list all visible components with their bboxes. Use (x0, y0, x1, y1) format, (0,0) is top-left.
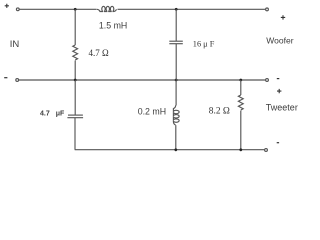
label - (woofer negative) (277, 78, 280, 80)
label - (input negative) (4, 77, 7, 79)
svg-text:Tweeter: Tweeter (266, 103, 298, 113)
svg-text:Woofer: Woofer (266, 36, 293, 46)
wire top rail right (118, 8, 266, 10)
wire capacitor C1 top lead (175, 9, 177, 41)
terminal input + (16, 8, 19, 11)
label - (tweeter negative) (277, 142, 279, 144)
wire resistor R1 top lead (74, 9, 76, 45)
wire bottom rail (75, 149, 265, 151)
terminal woofer -/tweeter + (266, 79, 269, 82)
label + (woofer positive) (281, 15, 285, 19)
svg-text:1.5 mH: 1.5 mH (99, 21, 127, 31)
capacitor C2 4.7 uF plate top (68, 114, 83, 116)
node junction top B (175, 8, 178, 11)
node junction bottom A (174, 148, 177, 151)
terminal woofer + (266, 8, 269, 11)
node junction top A (74, 8, 77, 11)
wire resistor R1 bottom lead (74, 61, 76, 81)
inductor L2 0.2 mH (173, 105, 179, 125)
terminal input - (16, 79, 19, 82)
svg-text:IN: IN (10, 39, 20, 50)
inductor L1 1.5 mH (97, 6, 117, 11)
resistor R1 4.7 ohm (73, 45, 78, 60)
wire top rail left (20, 8, 97, 10)
capacitor C1 16 uF plate bottom (169, 43, 183, 45)
terminal tweeter - (265, 149, 268, 152)
wire resistor R2 bottom lead (240, 111, 242, 150)
node junction bottom B (239, 148, 242, 151)
capacitor C2 4.7 uF plate bottom (67, 117, 83, 119)
wire capacitor C2 top lead (74, 80, 76, 115)
node junction middle A (74, 79, 77, 82)
svg-text:4.7: 4.7 (40, 111, 50, 118)
wire inductor L2 top lead (175, 80, 177, 106)
wire middle rail (19, 79, 265, 81)
node junction middle B (175, 79, 178, 82)
wire capacitor C1 bottom lead (175, 44, 177, 80)
capacitor C1 16 uF plate top (169, 40, 183, 42)
wire inductor L2 bottom lead (175, 125, 177, 150)
label + (input positive) (5, 4, 9, 8)
svg-text:0.2 mH: 0.2 mH (138, 107, 166, 117)
wire capacitor C2 bottom lead (74, 118, 76, 150)
wire resistor R2 top lead (240, 80, 242, 95)
node junction middle C (239, 79, 242, 82)
label + (tweeter positive) (277, 89, 281, 93)
svg-text:8.2 Ω: 8.2 Ω (209, 107, 230, 117)
svg-text:4.7 Ω: 4.7 Ω (89, 48, 110, 58)
svg-text:μF: μF (56, 111, 65, 118)
svg-text:16 μ F: 16 μ F (193, 39, 215, 48)
resistor R2 8.2 ohm (238, 95, 243, 110)
